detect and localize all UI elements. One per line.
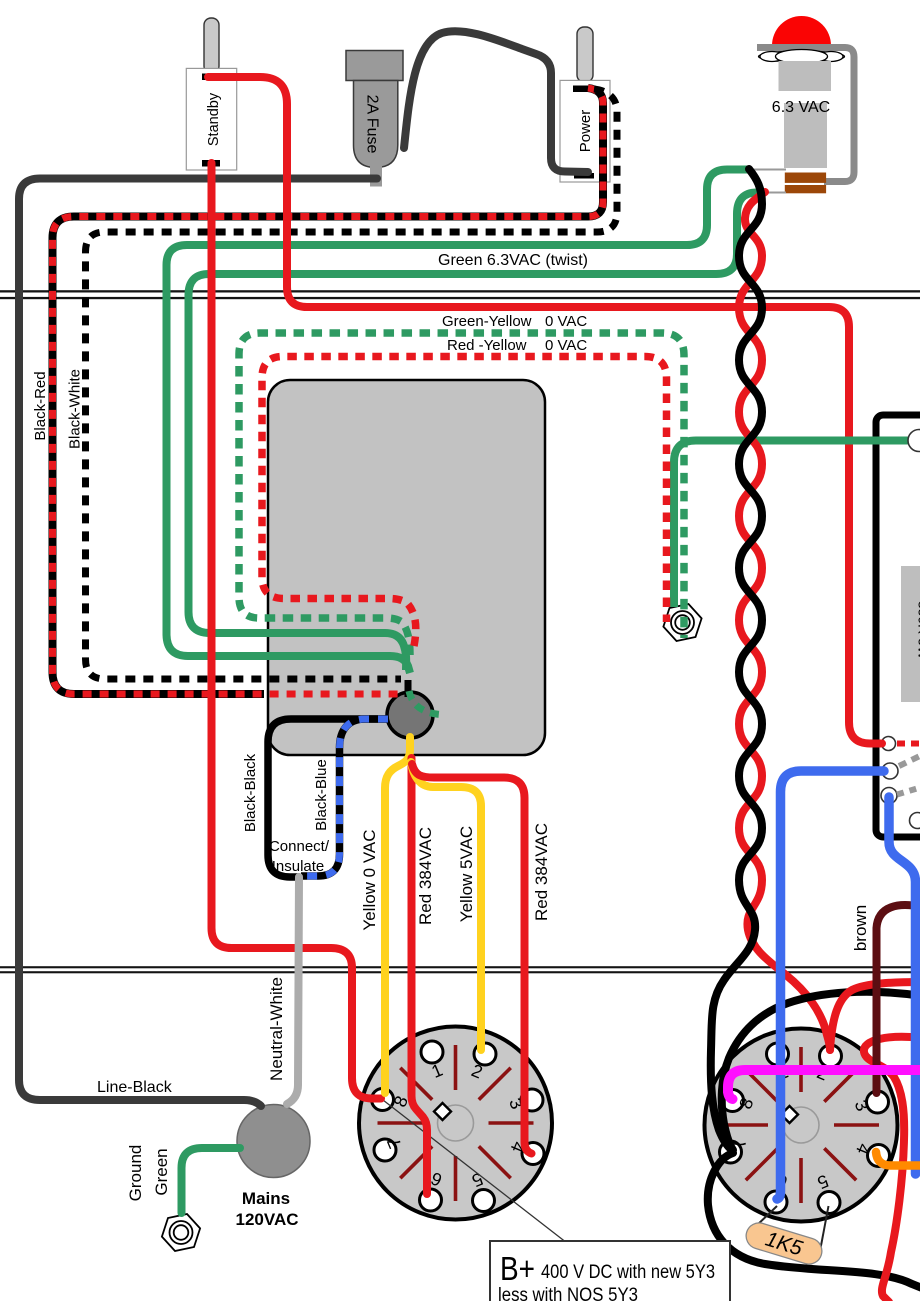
pilot lamp terminal line lower — [762, 192, 786, 194]
svg-text:Green: Green — [152, 1148, 171, 1195]
chassis line bottom 1 — [0, 966, 920, 968]
svg-text:brown: brown — [851, 905, 870, 951]
wire black-white dashed (power switch to transformer) — [86, 89, 618, 679]
svg-text:less with NOS 5Y3: less with NOS 5Y3 — [498, 1285, 638, 1301]
wire red-yellow dashed (to bolt) — [262, 357, 667, 647]
pilot lamp thread ring 2 — [785, 185, 826, 193]
gray dashed stub from lug 3 — [897, 787, 920, 795]
magenta wire to pin 8 — [728, 1070, 920, 1099]
terminal lug 2 — [882, 763, 898, 779]
terminal lug 1 (B+) — [882, 737, 896, 751]
black loop from pin 7 around socket bottom — [708, 1153, 920, 1288]
socket V2 (output tube) pins 1-8 — [767, 1043, 789, 1065]
wire green-yellow dashed (center tap to bolt) — [239, 333, 684, 655]
socket V2 (output tube) center circle — [783, 1107, 819, 1143]
brown wire to pin 3 — [877, 905, 920, 1093]
tube socket V2 (output tube) — [705, 1029, 898, 1222]
fuse holder F1 body — [354, 81, 398, 168]
B+ leader line — [383, 1100, 567, 1243]
wire green 6.3VAC B — [189, 193, 764, 671]
mains junction blob — [237, 1105, 310, 1178]
red dashed stub from lug 1 — [897, 741, 920, 747]
svg-text:Black-Red: Black-Red — [32, 371, 49, 440]
svg-text:Insulate: Insulate — [272, 858, 325, 875]
svg-text:Neutral-White: Neutral-White — [267, 977, 286, 1081]
svg-text:Yellow 5VAC: Yellow 5VAC — [457, 826, 476, 922]
terminal lug 4 (partial) — [910, 813, 920, 829]
resistor R1 1K5 body — [743, 1220, 825, 1268]
svg-text:0 VAC: 0 VAC — [545, 337, 587, 354]
svg-text:120VAC: 120VAC — [236, 1210, 299, 1229]
black wire from right edge to socket2 pin 7 — [722, 992, 920, 1150]
svg-text:2A Fuse: 2A Fuse — [364, 95, 381, 154]
svg-text:Green-Yellow: Green-Yellow — [442, 313, 532, 330]
svg-text:B+: B+ — [500, 1250, 535, 1287]
capacitor gray block in right box — [901, 566, 920, 702]
wire black-white solid stub into grommet — [405, 680, 412, 697]
svg-text:Red -Yellow: Red -Yellow — [447, 337, 527, 354]
socket V2 (output tube) body — [705, 1029, 898, 1222]
pilot lamp jewel petals — [759, 51, 845, 62]
socket V2 (output tube) key diamond — [781, 1106, 798, 1123]
ground bolt at mains — [162, 1214, 200, 1251]
svg-text:Ground: Ground — [126, 1145, 145, 1202]
svg-text:Black-Black: Black-Black — [242, 753, 259, 832]
fuse holder F1 cap — [346, 51, 403, 81]
pilot lamp thread ring 1 — [785, 173, 826, 183]
fuse holder bottom tab — [370, 166, 382, 187]
wire red 384VAC to pin 4 — [412, 764, 532, 1154]
socket V1 (5Y3 rectifier) center circle — [438, 1105, 474, 1141]
power transformer T1 body — [268, 380, 545, 755]
twisted pair black (lamp to socket2 pin 7) — [711, 169, 762, 1150]
ground bolt at transformer — [663, 604, 701, 641]
chassis line top 2 — [0, 297, 920, 299]
wire black-blue blue overlay — [301, 719, 388, 876]
socket V2 (output tube) keying spokes — [834, 1123, 879, 1127]
resistor R1 lead from pin 5 — [820, 1206, 829, 1251]
power switch terminal bottom — [574, 173, 594, 179]
wire neutral-white gray — [287, 877, 299, 1104]
amp lug circle for green — [908, 430, 920, 452]
green dashed tail in grommet — [409, 691, 440, 715]
pilot lamp upper body — [779, 61, 832, 91]
right amp chassis box — [876, 415, 920, 837]
socket V1 (5Y3 rectifier) key diamond — [434, 1103, 451, 1120]
svg-text:Green 6.3VAC (twist): Green 6.3VAC (twist) — [438, 252, 588, 269]
wire red B+ (standby top to amp) — [208, 77, 882, 744]
svg-text:Power: Power — [577, 110, 594, 153]
svg-text:350R 5W: 350R 5W — [916, 601, 920, 660]
svg-text:Standby: Standby — [206, 92, 222, 146]
pilot lamp dome — [772, 16, 831, 45]
wire yellow 5VAC to pin 2 — [411, 762, 481, 1050]
svg-text:Black-White: Black-White — [67, 369, 84, 449]
svg-text:Red 384VAC: Red 384VAC — [532, 823, 551, 921]
wire fuse to power switch — [404, 31, 588, 172]
rubber grommet on transformer — [387, 692, 433, 738]
power switch terminal top — [573, 86, 594, 93]
wire black-black (transformer to mains) — [268, 719, 388, 877]
red from pin 2 to right edge — [830, 982, 920, 1050]
svg-text:0 VAC: 0 VAC — [545, 313, 587, 330]
wire black-red striped base (power switch to transformer) — [53, 88, 604, 694]
power switch SW1 body — [560, 80, 610, 182]
svg-text:Black-Blue: Black-Blue — [313, 759, 330, 831]
twisted pair red (lamp to socket2 pin 2) — [739, 192, 830, 1050]
wire yellow 0VAC to pin 8 — [385, 737, 410, 1093]
svg-text:Red 384VAC: Red 384VAC — [416, 827, 435, 925]
socket V1 (5Y3 rectifier) pins 1-8 — [421, 1041, 443, 1063]
socket V1 (5Y3 rectifier) keying spokes — [489, 1121, 534, 1125]
terminal lug 3 — [881, 788, 897, 804]
chassis line bottom 2 — [0, 971, 920, 973]
wire line-black from fuse — [19, 179, 377, 1107]
wire green 6.3VAC A — [167, 170, 749, 674]
standby switch terminal bottom — [202, 160, 220, 167]
wire ground green at mains — [182, 1148, 241, 1213]
svg-text:Mains: Mains — [242, 1189, 290, 1208]
standby switch SW2 handle — [204, 18, 219, 73]
wire red 384VAC to pin 6 — [412, 758, 428, 1194]
wire black-red striped red overlay — [53, 88, 604, 694]
resistor R1 lead from pin 6 — [753, 1206, 777, 1229]
blue wire lug2 to pin 6 — [777, 771, 884, 1199]
wire green to amp lug — [674, 441, 911, 608]
pilot lamp mounting bracket — [757, 48, 854, 182]
power switch SW1 handle — [577, 27, 593, 82]
pilot lamp terminal line left — [748, 169, 786, 171]
blue wire lug3 down right edge — [889, 797, 916, 1174]
pilot lamp lower body — [784, 103, 827, 168]
wire black-blue base — [301, 719, 388, 876]
tube socket V1 (rectifier) — [359, 1027, 552, 1220]
standby switch terminal top — [202, 74, 212, 81]
svg-text:Line-Black: Line-Black — [97, 1079, 173, 1096]
svg-text:Yellow 0 VAC: Yellow 0 VAC — [360, 829, 379, 930]
standby switch SW2 body — [186, 68, 236, 170]
svg-text:Connect/: Connect/ — [269, 838, 330, 855]
socket V1 (5Y3 rectifier) body — [359, 1027, 552, 1220]
gray dashed stub from lug 2 — [899, 755, 920, 766]
B+ note box — [490, 1241, 730, 1301]
red wrap around socket2 — [864, 1037, 920, 1301]
svg-text:6.3 VAC: 6.3 VAC — [772, 99, 830, 116]
orange wire from pin 4 — [876, 1152, 920, 1166]
svg-text:400 V DC with new 5Y3: 400 V DC with new 5Y3 — [541, 1262, 715, 1283]
wire red B+ (standby bottom to rectifier pin 8) — [212, 163, 382, 1099]
chassis line top 1 — [0, 290, 920, 292]
